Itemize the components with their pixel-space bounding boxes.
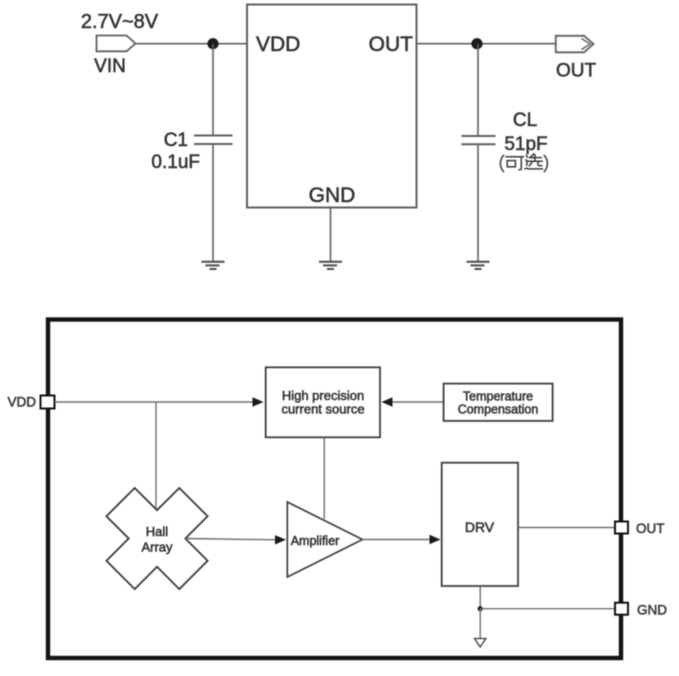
outer chip boundary box (48, 320, 621, 659)
pin GND square (615, 603, 628, 615)
svg-text:Amplifier: Amplifier (291, 534, 340, 548)
wire VIN to VDD pin (136, 43, 248, 45)
node junction at gnd wire (478, 606, 483, 611)
wire DRV to OUT pin (518, 527, 615, 529)
amplifier triangle (287, 502, 362, 577)
node junction dot at C1 (207, 38, 218, 49)
pin VDD square (41, 396, 55, 409)
wire OUT pin to tag (417, 43, 556, 45)
svg-text:DRV: DRV (465, 519, 495, 535)
arrowhead into amplifier (275, 535, 286, 544)
wire C1 to ground (212, 144, 214, 262)
svg-text:current source: current source (281, 402, 364, 417)
wire VDD to current source (55, 401, 255, 403)
wire temp-comp to current source (390, 401, 444, 403)
arrowhead into current source (right side) (382, 397, 393, 406)
block: Temperature Compensation (444, 384, 553, 421)
wire amplifier to DRV (363, 539, 432, 541)
arrowhead into current source (253, 397, 264, 406)
port OUT tag (556, 36, 594, 53)
ground (CL) (467, 262, 490, 269)
svg-text:CL: CL (513, 110, 537, 131)
svg-text:VDD: VDD (256, 33, 300, 56)
ground arrow (475, 639, 486, 648)
pin OUT square (615, 522, 628, 534)
svg-text:VIN: VIN (94, 56, 126, 77)
wire GND pin to ground (330, 208, 332, 262)
block: High precision current source (266, 367, 380, 437)
wire down to C1 (212, 44, 214, 136)
char 可 (506, 156, 524, 158)
paren ( (500, 155, 503, 171)
ground (GND pin) (319, 262, 342, 269)
wire VDD branch down to Hall (155, 402, 157, 511)
svg-text:OUT: OUT (636, 521, 665, 536)
svg-text:Compensation: Compensation (458, 403, 539, 417)
svg-text:Array: Array (141, 540, 173, 555)
block: DRV (442, 463, 518, 586)
wire current source down to amplifier (323, 437, 325, 519)
svg-text:GND: GND (309, 184, 356, 207)
label (optional) (500, 154, 547, 172)
svg-text:0.1uF: 0.1uF (151, 152, 200, 173)
node junction dot at CL (471, 38, 482, 49)
char 选 (530, 154, 533, 157)
svg-text:Hall: Hall (146, 524, 169, 539)
svg-text:OUT: OUT (369, 33, 414, 56)
wire hall to amplifier (185, 539, 277, 540)
wire down to CL (477, 44, 479, 136)
svg-text:C1: C1 (164, 130, 188, 151)
arrowhead into DRV (430, 535, 441, 544)
svg-text:2.7V~8V: 2.7V~8V (81, 11, 159, 33)
capacitor C1 (194, 135, 233, 137)
svg-text:51pF: 51pF (504, 134, 547, 155)
port VIN tag (97, 36, 136, 52)
hall array cross (106, 488, 207, 589)
paren ) (544, 155, 547, 171)
wire DRV bottom down (479, 586, 481, 609)
svg-text:GND: GND (637, 602, 667, 617)
ground (C1) (202, 262, 225, 269)
capacitor CL (462, 135, 496, 137)
wire to GND pin (480, 608, 615, 610)
svg-text:Temperature: Temperature (463, 390, 533, 404)
svg-text:VDD: VDD (7, 395, 36, 410)
wire CL to ground (477, 144, 479, 261)
svg-text:OUT: OUT (556, 61, 597, 82)
chip U1 body (247, 5, 417, 208)
wire down to ground arrow (479, 609, 481, 639)
